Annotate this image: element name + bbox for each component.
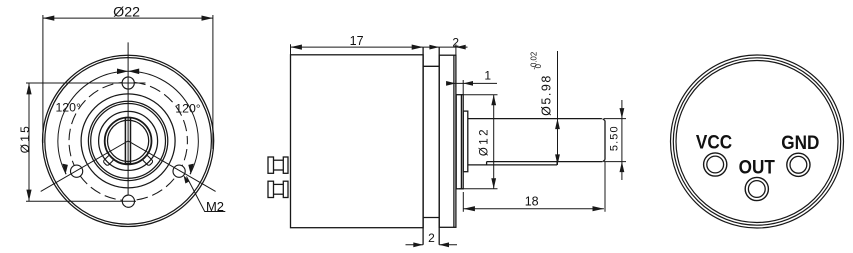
arrow dia22 left: [43, 16, 54, 21]
dim 5.50 line: [621, 100, 623, 180]
ring r39.7: [88, 101, 167, 180]
svg-text:120°: 120°: [175, 101, 201, 115]
dia22 dim line: [43, 17, 213, 19]
shaft end chamfer bottom: [603, 160, 605, 162]
inner circle r47: [81, 94, 175, 188]
arrow 17 right: [412, 45, 423, 50]
arrow 17 left: [291, 45, 302, 50]
slot bottom line: [487, 161, 603, 163]
terminal OUT outer: [745, 177, 768, 200]
arrow 5.50 top: [620, 108, 625, 119]
pin1 right cap: [283, 157, 288, 173]
hole top: [122, 77, 134, 89]
shaft inner circle: [108, 120, 149, 161]
ext 1 left: [455, 80, 457, 87]
flange inner bottom edge: [423, 217, 439, 219]
circle r29.5: [99, 111, 158, 170]
hole left: [71, 165, 83, 177]
svg-text:Ø5.98: Ø5.98: [540, 74, 554, 116]
arrow dia15 bottom: [26, 190, 31, 201]
bolt circle dashed: [69, 82, 187, 200]
dia22 ext right: [212, 15, 214, 149]
arrow arc-top left: [117, 69, 128, 75]
step rect: [463, 111, 468, 172]
dim 2 top line: [423, 46, 467, 48]
arrow 2top left: [429, 45, 439, 50]
pin1 neck: [274, 159, 284, 161]
dia15 ext top: [26, 82, 146, 84]
left tab: [103, 155, 114, 166]
ext 5.50 bottom: [604, 161, 626, 163]
ext 18 right: [604, 162, 606, 212]
angular arc right: [128, 71, 198, 174]
arrow arc-end left: [62, 164, 68, 175]
radial line lower-right: [128, 141, 216, 192]
plate B inner line: [453, 55, 455, 227]
terminal VCC outer: [704, 153, 727, 176]
radial line lower-left: [41, 141, 128, 192]
svg-text:OUT: OUT: [739, 155, 776, 177]
ext 18 left: [462, 192, 464, 212]
flange right edge: [438, 47, 440, 245]
dia15 dim line: [28, 83, 30, 201]
arrow dia15 top: [26, 83, 31, 94]
dim 1 line: [447, 82, 498, 84]
svg-text:M2: M2: [206, 199, 224, 214]
arrow 1 right: [463, 81, 473, 86]
shaft end line: [604, 121, 606, 160]
shaft bold circle: [105, 117, 152, 164]
ring r37.4: [91, 103, 166, 178]
RIGHT VIEW: [671, 55, 844, 228]
rear inner circle: [676, 61, 838, 223]
dia12 ext bottom: [459, 188, 498, 190]
arrow 2top right: [456, 45, 466, 50]
svg-text:VCC: VCC: [696, 130, 732, 152]
MIDDLE VIEW: [268, 47, 605, 245]
collar dia12 rect: [456, 95, 463, 189]
dim 2 bottom line right piece: [439, 244, 457, 246]
slot line right: [130, 118, 132, 164]
M2 leader: [187, 177, 226, 212]
svg-text:-0.02: -0.02: [529, 52, 538, 70]
terminal GND inner: [790, 156, 807, 173]
dia22 ext left: [42, 15, 44, 143]
shaft end chamfer top: [603, 119, 605, 121]
dia15 ext bottom: [26, 200, 136, 202]
hole bottom: [122, 195, 134, 207]
pin1 left cap: [268, 157, 274, 173]
slot line left: [124, 118, 126, 164]
arrow dia12 bottom: [491, 178, 496, 189]
right tab: [142, 155, 153, 166]
arrow M2 leader: [184, 175, 190, 183]
svg-text:1: 1: [484, 68, 491, 82]
terminal OUT inner: [748, 181, 765, 198]
arrow dia12 top: [491, 95, 496, 106]
svg-text:Ø15: Ø15: [18, 124, 32, 153]
terminal GND outer: [787, 153, 810, 176]
arrow 2bot right: [439, 242, 449, 247]
dim 18 line: [464, 208, 604, 210]
arrow 18 left: [464, 206, 475, 211]
angular arc left: [58, 71, 128, 174]
dia12 ext top: [463, 94, 497, 96]
ext 2 top (plateB right): [455, 44, 457, 55]
svg-text:2: 2: [428, 231, 435, 245]
arrow dia5.98 top: [555, 119, 560, 130]
vertical centerline: [127, 42, 129, 195]
dia5.98 dim line: [557, 51, 559, 165]
pin2 left cap: [268, 181, 274, 197]
body outer inner circle: [45, 58, 212, 225]
pin2 right cap: [283, 181, 288, 197]
arrow 5.50 bottom: [620, 162, 625, 173]
svg-text:2: 2: [452, 36, 459, 50]
ext 5.50 top: [604, 118, 626, 120]
pin2 neck: [274, 183, 284, 185]
svg-text:Ø22: Ø22: [113, 4, 140, 20]
ext 17 left: [290, 44, 292, 55]
dia12 dim line: [493, 95, 495, 189]
body outer circle: [43, 55, 214, 226]
dim 2 bottom line left piece: [406, 244, 424, 246]
svg-text:120°: 120°: [55, 101, 81, 115]
arrow dia22 right: [202, 16, 213, 21]
ext 1 right: [462, 80, 464, 95]
arrow 18 right: [593, 206, 604, 211]
arrow 2bot left: [413, 242, 423, 247]
collar inner right line: [460, 95, 462, 189]
body rect: [291, 55, 424, 228]
shaft bottom line: [468, 164, 557, 166]
svg-text:5.50: 5.50: [609, 125, 621, 151]
svg-text:GND: GND: [781, 131, 819, 153]
arrow 1 left: [446, 81, 456, 86]
svg-text:Ø12: Ø12: [479, 127, 491, 156]
dim 17 line: [291, 46, 424, 48]
slot step tick: [556, 162, 558, 165]
rear mid circle: [673, 58, 840, 225]
rear outer circle: [671, 55, 844, 228]
slot left tick: [486, 162, 488, 165]
hole right: [173, 165, 185, 177]
flange top edge: [423, 65, 439, 67]
arrow arc-top right: [128, 69, 139, 75]
shaft top line: [468, 118, 602, 120]
plate B rect: [439, 55, 456, 227]
terminal VCC inner: [707, 156, 724, 173]
flange left edge: [422, 47, 424, 245]
svg-text:17: 17: [350, 34, 364, 48]
arrow arc-end right: [188, 164, 194, 175]
svg-text:18: 18: [525, 195, 539, 209]
arrow dia5.98 bottom: [555, 154, 560, 165]
slot bottom chord: [125, 162, 130, 164]
